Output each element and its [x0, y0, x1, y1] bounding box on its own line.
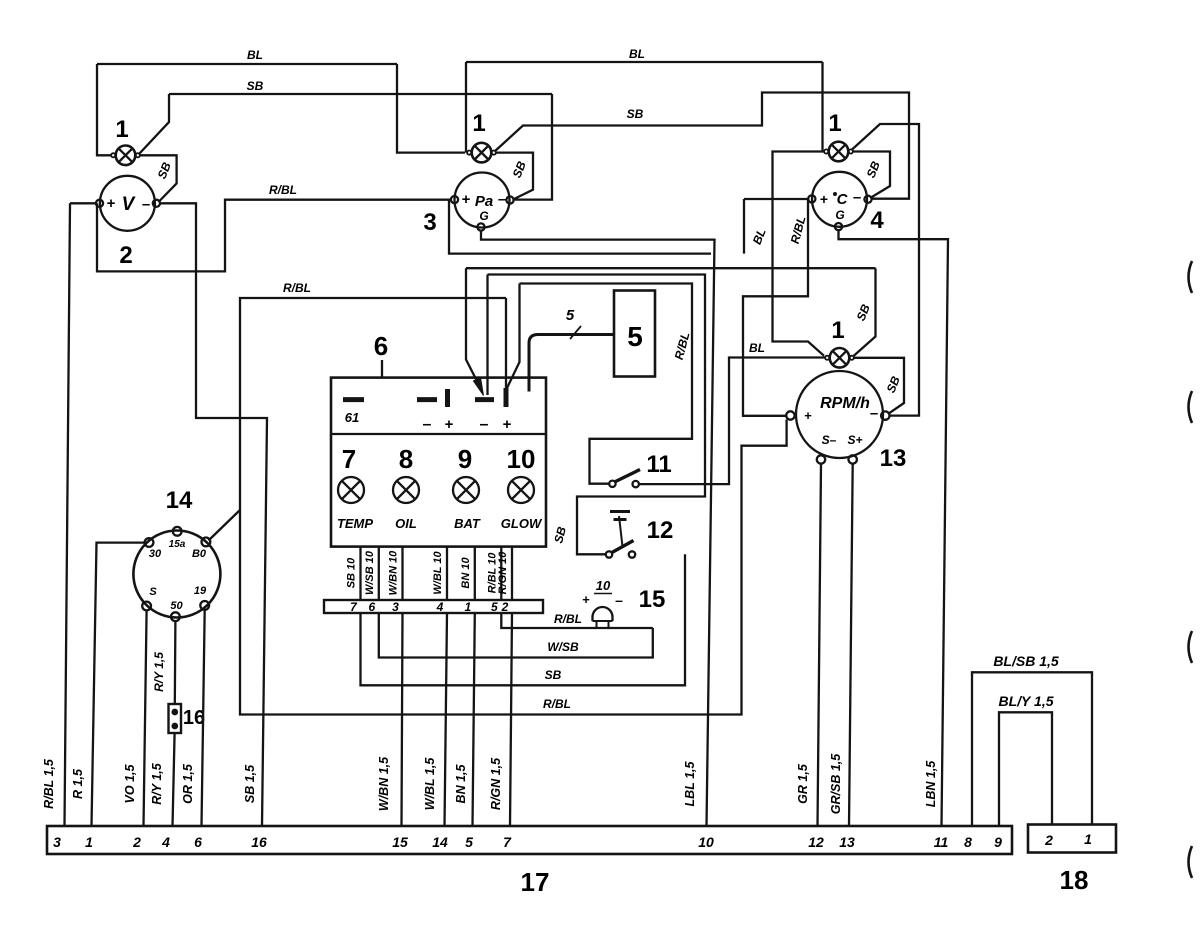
svg-text:W/BL 1,5: W/BL 1,5	[423, 757, 437, 811]
svg-text:15a: 15a	[169, 539, 186, 550]
svg-text:BL/Y 1,5: BL/Y 1,5	[999, 693, 1054, 709]
svg-text:GR 1,5: GR 1,5	[796, 763, 810, 804]
wire BL bus 2 (top middle)	[466, 61, 823, 63]
svg-text:–: –	[498, 191, 506, 208]
svg-text:2: 2	[1044, 832, 1053, 848]
svg-text:19: 19	[194, 585, 207, 597]
svg-text:6: 6	[374, 331, 388, 361]
svg-text:1: 1	[1084, 831, 1092, 847]
wire minus line (y268) box6 to lamp4	[466, 267, 876, 269]
svg-text:S: S	[149, 586, 157, 598]
svg-text:+: +	[107, 195, 116, 212]
svg-text:16: 16	[183, 707, 205, 729]
svg-text:R/BL: R/BL	[269, 183, 297, 197]
RPM terminals	[786, 411, 794, 419]
svg-text:–: –	[480, 416, 489, 433]
svg-text:–: –	[870, 405, 878, 422]
svg-text:OIL: OIL	[395, 516, 417, 531]
lamp 1 (voltmeter warning)	[116, 146, 136, 166]
wire V plus to left vertical	[70, 202, 96, 204]
svg-text:R/BL: R/BL	[554, 612, 582, 626]
svg-text:BAT: BAT	[454, 516, 481, 531]
wire RPM plus down chain to R/BL bottom line	[240, 298, 787, 715]
svg-text:R/BL: R/BL	[543, 697, 571, 711]
wire box6 stub W/BN 10	[401, 547, 403, 601]
wires box6 pins down to connector 17	[402, 613, 403, 826]
svg-text:–: –	[615, 592, 623, 608]
margin mark	[1189, 846, 1193, 878]
wire BL bus 1 (top left)	[97, 63, 397, 65]
wire V minus chain down	[160, 203, 267, 826]
box 5	[614, 291, 655, 377]
svg-text:R/BL: R/BL	[283, 281, 311, 295]
svg-text:9: 9	[458, 444, 472, 474]
svg-text:RPM/h: RPM/h	[820, 395, 870, 412]
wire R/BL supply into box 6	[505, 298, 507, 406]
wire SB bus1 left leg + diagonal to lamp 1	[140, 94, 170, 154]
svg-text:SB 1,5: SB 1,5	[243, 764, 257, 803]
svg-text:G: G	[479, 209, 488, 223]
pressure gauge U3 circle	[455, 173, 510, 228]
lamp 2 (pressure warning)	[472, 143, 492, 163]
wire SB diagonal lamp3	[852, 124, 920, 416]
svg-text:SB: SB	[247, 79, 264, 93]
svg-text:2: 2	[132, 834, 141, 850]
svg-text:10: 10	[698, 834, 714, 850]
svg-text:10: 10	[596, 578, 611, 593]
svg-text:R/GN 10: R/GN 10	[497, 551, 509, 595]
svg-text:W/BN 1,5: W/BN 1,5	[377, 756, 391, 811]
box 6 terminal bar 2 (R/BL)	[504, 388, 509, 407]
buzzer 15	[593, 607, 613, 621]
gauge4 terminals	[808, 195, 815, 202]
svg-text:–: –	[423, 416, 432, 433]
svg-text:OR 1,5: OR 1,5	[181, 763, 195, 804]
svg-text:14: 14	[166, 487, 193, 514]
wire key 50 to fuse and pin 4	[174, 621, 177, 704]
svg-text:4: 4	[870, 207, 884, 234]
svg-text:8: 8	[399, 444, 413, 474]
wire R/BL line to buzzer	[501, 613, 653, 628]
lamp 10 GLOW	[508, 477, 534, 503]
wire SB line to switch 12	[361, 554, 686, 685]
wire minus line drop with arrow into box 6	[466, 268, 482, 390]
svg-text:VO 1,5: VO 1,5	[123, 764, 137, 804]
svg-text:61: 61	[345, 410, 359, 425]
svg-text:+: +	[804, 408, 812, 423]
wire SB run lamp2 to gauge4	[495, 93, 910, 199]
wire BL/Y pin9 to 18.2	[999, 712, 1052, 826]
svg-text:+: +	[503, 416, 512, 433]
wire gauge4 G sender to pin 11	[839, 230, 949, 826]
svg-text:3: 3	[423, 209, 436, 236]
svg-text:4: 4	[161, 834, 170, 850]
svg-text:13: 13	[880, 445, 907, 472]
box 6 terminal dash 3	[475, 397, 494, 402]
svg-text:13: 13	[839, 834, 855, 850]
svg-text:+: +	[445, 416, 454, 433]
svg-text:BL: BL	[247, 48, 263, 62]
fuse 16	[169, 704, 182, 733]
svg-text:S+: S+	[847, 433, 862, 447]
lamp 8 OIL	[393, 477, 419, 503]
key switch terminals	[173, 527, 182, 536]
wire lamp4 right SB up to minus-line	[854, 268, 876, 356]
svg-text:7: 7	[342, 444, 356, 474]
wire BL/SB pin8 to 18.1	[972, 672, 1092, 826]
svg-text:18: 18	[1060, 865, 1089, 895]
wire box6 stub R/BL 10	[500, 547, 502, 601]
wire SB bus 1	[169, 93, 552, 95]
svg-text:3: 3	[53, 834, 61, 850]
wire gauge3 G sender to pin 10	[481, 231, 715, 827]
wire plus line (y283) box6 to switch 11	[520, 284, 693, 484]
margin mark	[1189, 631, 1193, 663]
wire R/BL link V to gauge3	[97, 200, 451, 272]
svg-text:5: 5	[465, 834, 473, 850]
svg-text:16: 16	[251, 834, 267, 850]
svg-text:LBL 1,5: LBL 1,5	[683, 760, 697, 806]
svg-text:+: +	[582, 592, 590, 607]
wire switch11 right to BL line	[639, 358, 826, 485]
wire box6 stub W/SB 10	[378, 547, 380, 601]
svg-text:17: 17	[521, 867, 550, 897]
svg-text:11: 11	[646, 451, 671, 478]
wire lamp2 right jog to Pa minus	[495, 153, 533, 200]
box 6 terminal bar 1	[445, 389, 450, 407]
wire long left vertical to connector pin 3	[65, 203, 71, 826]
wire key S to pin 2	[144, 610, 147, 826]
svg-text:R/GN 1,5: R/GN 1,5	[489, 757, 503, 810]
svg-text:BN 1,5: BN 1,5	[454, 764, 468, 804]
svg-text:6: 6	[194, 834, 202, 850]
gauge3 terminals	[451, 196, 458, 203]
connector 18	[1028, 825, 1116, 853]
tachometer U13 circle	[796, 371, 883, 458]
wire RPM S- to pin 12	[818, 464, 822, 826]
lamp 9 BAT	[453, 477, 479, 503]
box 6 divider	[331, 433, 546, 435]
svg-text:1: 1	[85, 834, 93, 850]
svg-text:S–: S–	[822, 433, 837, 447]
switch 12 (push button)	[606, 551, 612, 557]
svg-text:5: 5	[566, 307, 575, 324]
svg-text:–: –	[853, 189, 861, 206]
wire BL bus1 left drop to lamp 1	[97, 64, 111, 155]
voltmeter terminals	[96, 200, 103, 207]
wire lamp4 right jog to RPM minus	[854, 358, 905, 414]
svg-text:R 1,5: R 1,5	[71, 768, 85, 799]
wire SB bus1 right leg down to gauge 3 minus	[513, 94, 552, 200]
svg-text:W/SB 10: W/SB 10	[364, 550, 376, 595]
svg-text:SB: SB	[545, 668, 562, 682]
svg-text:W/BN 10: W/BN 10	[388, 550, 400, 596]
svg-text:SB: SB	[627, 107, 644, 121]
wire RPM S+ to pin 13	[849, 464, 853, 826]
svg-text:SB 10: SB 10	[346, 557, 358, 588]
svg-text:TEMP: TEMP	[337, 516, 373, 531]
svg-text:15: 15	[639, 586, 666, 613]
svg-text:12: 12	[647, 517, 674, 544]
svg-text:R/Y 1,5: R/Y 1,5	[150, 762, 164, 805]
svg-text:G: G	[835, 208, 844, 222]
svg-text:LBN 1,5: LBN 1,5	[924, 760, 938, 808]
svg-text:50: 50	[170, 600, 183, 612]
wire lamp3 right jog to gauge4 minus	[852, 152, 890, 198]
svg-text:BN 10: BN 10	[460, 557, 472, 589]
arrowhead at box6 terminal	[474, 378, 484, 396]
svg-text:B0: B0	[192, 548, 207, 560]
svg-text:5: 5	[627, 321, 643, 352]
svg-text:2: 2	[119, 242, 132, 269]
svg-text:R/Y 1,5: R/Y 1,5	[152, 652, 166, 692]
box 6 terminal 61	[343, 397, 364, 402]
svg-text:BL: BL	[749, 341, 765, 355]
svg-text:9: 9	[994, 834, 1002, 850]
temp gauge U4 circle	[812, 172, 867, 227]
svg-text:7: 7	[503, 834, 512, 850]
wire R/BL diagonal into key switch	[209, 510, 241, 541]
wire BL bus2 drop at lamp 2	[465, 62, 467, 153]
switch 11	[609, 481, 615, 487]
wire minus2 line (y274) box6 to switch 12	[488, 275, 706, 555]
wire box6 stub W/BL 10	[446, 547, 448, 601]
box 6 outline	[331, 378, 546, 547]
svg-text:8: 8	[964, 834, 972, 850]
svg-text:R/BL 1,5: R/BL 1,5	[42, 758, 56, 809]
wire BL bus2 drop to lamp 3	[821, 62, 823, 152]
svg-text:C: C	[837, 191, 849, 208]
svg-text:10: 10	[507, 444, 536, 474]
voltmeter U2 circle	[100, 176, 155, 231]
svg-text:30: 30	[149, 548, 162, 560]
lamp 4 (RPM warning)	[830, 348, 850, 368]
svg-text:11: 11	[934, 834, 949, 850]
svg-text:14: 14	[432, 834, 448, 850]
wire box6 stub BN 10	[474, 547, 476, 601]
box 6 terminal dash 2	[417, 397, 437, 402]
lamp 3 (temperature warning)	[829, 142, 849, 162]
svg-text:V: V	[122, 194, 136, 215]
box 6 label leader	[381, 360, 383, 377]
ignition switch 14 circle	[133, 531, 220, 618]
connector 17 strip	[47, 826, 1012, 854]
wire key 30 to pin 1	[92, 543, 145, 826]
svg-text:1: 1	[828, 110, 841, 137]
margin mark	[1189, 261, 1193, 293]
svg-text:1: 1	[472, 110, 485, 137]
svg-text:+: +	[820, 191, 828, 207]
svg-text:GR/SB 1,5: GR/SB 1,5	[829, 753, 843, 814]
wire gauge4 plus horizontal	[744, 198, 808, 200]
svg-text:–: –	[142, 196, 150, 213]
wire box6 stub SB 10	[359, 547, 361, 601]
svg-text:1: 1	[831, 317, 844, 344]
wire lamp1 right jog to V minus	[139, 155, 177, 202]
svg-text:15: 15	[392, 834, 408, 850]
wire W/SB line to buzzer	[379, 613, 653, 658]
svg-text:BL: BL	[629, 47, 645, 61]
svg-text:W/SB: W/SB	[547, 640, 579, 654]
box 6 terminal strip	[324, 600, 543, 613]
svg-text:12: 12	[808, 834, 824, 850]
wire R/BL gauge4 down-jog	[743, 199, 808, 416]
wire 5 (screened cable) into box 6	[529, 335, 614, 392]
wire key 19 to pin 6	[202, 610, 205, 826]
wire lamp3 left chain down to lamp4	[773, 152, 826, 356]
lamp 7 TEMP	[338, 477, 364, 503]
svg-text:Pa: Pa	[475, 193, 493, 210]
margin mark	[1189, 391, 1193, 423]
svg-text:GLOW: GLOW	[501, 516, 543, 531]
wire box6 stub R/GN 10	[511, 547, 513, 601]
svg-text:BL/SB 1,5: BL/SB 1,5	[993, 653, 1059, 669]
svg-text:+: +	[462, 191, 471, 208]
wire gauge3 plus chain to gauge4 plus	[449, 200, 711, 254]
svg-text:1: 1	[115, 116, 128, 143]
wire BL bus1 right drop to lamp 2	[397, 64, 465, 153]
svg-text:W/BL 10: W/BL 10	[432, 551, 444, 595]
